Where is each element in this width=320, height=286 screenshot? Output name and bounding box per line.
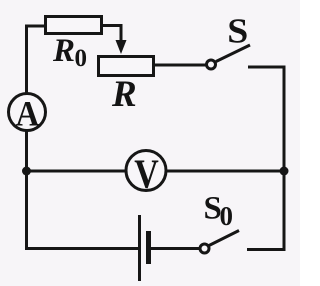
wire bottom left bbox=[25, 247, 138, 250]
switch S blade bbox=[216, 45, 250, 62]
wire middle left bbox=[26, 170, 126, 173]
svg-text:R: R bbox=[111, 74, 137, 115]
battery short plate bbox=[146, 231, 151, 264]
wire top-left horizontal bbox=[25, 25, 46, 28]
wire rheostat to switch S bbox=[155, 64, 206, 67]
wire left rail upper bbox=[25, 25, 28, 95]
wiper arrow bbox=[116, 40, 127, 54]
wire top-right bbox=[248, 67, 284, 172]
node left junction bbox=[22, 167, 31, 176]
rheostat R bbox=[99, 57, 154, 76]
svg-text:A: A bbox=[16, 94, 40, 134]
wire battery to S0 bbox=[150, 247, 200, 250]
wire right rail lower bbox=[283, 171, 286, 251]
wire left rail lower bbox=[25, 130, 28, 250]
voltmeter V bbox=[126, 151, 166, 191]
switch S contact circle bbox=[207, 60, 216, 69]
wire bottom right bbox=[247, 248, 286, 251]
wire from R0 to wiper corner bbox=[102, 26, 121, 41]
svg-text:V: V bbox=[134, 151, 159, 197]
battery long plate bbox=[138, 215, 141, 281]
switch S0 contact circle bbox=[200, 244, 209, 253]
resistor R0 bbox=[46, 17, 102, 34]
svg-text:0: 0 bbox=[220, 201, 234, 231]
svg-text:0: 0 bbox=[75, 45, 88, 72]
node right junction bbox=[280, 167, 289, 176]
switch S0 blade bbox=[209, 231, 239, 246]
svg-text:S: S bbox=[227, 12, 248, 51]
ammeter A bbox=[9, 94, 46, 131]
svg-text:R: R bbox=[52, 33, 75, 69]
wire middle right bbox=[166, 170, 284, 173]
